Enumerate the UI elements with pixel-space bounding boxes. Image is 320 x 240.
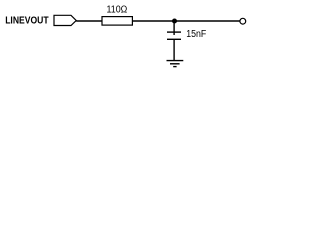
wire: capacitor to ground [173, 39, 175, 60]
resistor R [102, 17, 132, 26]
svg-text:110Ω: 110Ω [107, 4, 128, 16]
wire: tag to resistor [76, 20, 102, 22]
wire: junction to capacitor [173, 21, 175, 35]
ground [167, 61, 184, 67]
junction node [172, 19, 177, 24]
capacitor C [167, 32, 181, 39]
wire: resistor to junction [132, 20, 174, 22]
svg-text:15nF: 15nF [186, 29, 206, 40]
svg-text:LINEVOUT: LINEVOUT [5, 16, 48, 27]
wire: junction to output terminal [174, 20, 240, 22]
output terminal (open circle) [240, 18, 246, 24]
connector tag LINEVOUT [54, 15, 76, 25]
